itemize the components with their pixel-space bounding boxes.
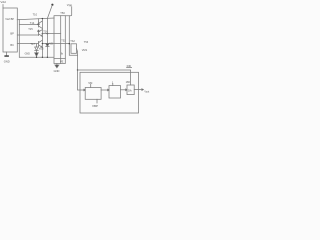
diode VD5 stack bbox=[36, 44, 38, 47]
block U1 bias reference block bbox=[3, 8, 17, 52]
wire output arrow bbox=[134, 89, 143, 91]
wire box2 to box3 bbox=[121, 89, 128, 91]
block outer enclosure bbox=[80, 72, 139, 113]
node junction W1-D2 bbox=[47, 33, 49, 35]
wire output rail bbox=[69, 16, 77, 56]
diode VD6 bbox=[46, 18, 48, 43]
node junction D bbox=[42, 43, 43, 44]
wire Vdd lead bbox=[2, 5, 4, 9]
svg-text:T14: T14 bbox=[30, 21, 35, 25]
wire B to Q1 bbox=[19, 23, 38, 25]
ground under U2 bbox=[56, 64, 58, 66]
wire collector rail bbox=[41, 19, 43, 58]
svg-text:T53: T53 bbox=[84, 41, 89, 44]
node VBP label lead bbox=[96, 99, 98, 103]
svg-text:VM1: VM1 bbox=[82, 48, 88, 52]
svg-text:VD: VD bbox=[49, 42, 53, 46]
block U3 sense box bbox=[71, 44, 77, 54]
svg-text:VE: VE bbox=[60, 59, 64, 63]
wire W1 bbox=[42, 33, 60, 35]
svg-text:Tb2: Tb2 bbox=[70, 39, 75, 43]
node junction DD branch bbox=[77, 69, 78, 70]
block VM measure box bbox=[85, 88, 101, 100]
node B input stem with dot bbox=[47, 6, 51, 18]
svg-text:Vpp: Vpp bbox=[67, 3, 73, 7]
svg-text:VBP: VBP bbox=[92, 104, 98, 108]
wire VM box to box2 bbox=[101, 89, 109, 91]
wire Vpp lead bbox=[65, 7, 71, 16]
svg-text:180: 180 bbox=[126, 80, 131, 84]
svg-text:T17: T17 bbox=[30, 42, 35, 46]
svg-text:BP: BP bbox=[10, 31, 14, 35]
wire D left segment bbox=[17, 43, 38, 45]
svg-text:VD5: VD5 bbox=[39, 48, 44, 51]
svg-text:T15: T15 bbox=[28, 27, 33, 31]
ground under U1 bbox=[6, 52, 8, 55]
wire top bus A bbox=[17, 18, 54, 20]
wire C to Q2 bbox=[17, 34, 38, 36]
wire D right segment bbox=[42, 43, 69, 45]
svg-text:Vout: Vout bbox=[144, 91, 149, 94]
block box2 controller bbox=[109, 86, 121, 98]
block U2 current source pair bbox=[54, 16, 65, 64]
svg-text:Ib: Ib bbox=[61, 51, 64, 55]
block box3 DAC bbox=[127, 85, 134, 95]
svg-text:DA: DA bbox=[128, 89, 132, 93]
node junction W1 bbox=[42, 33, 43, 34]
wire U3 to lower circuit bbox=[77, 49, 86, 91]
svg-text:BC: BC bbox=[10, 43, 14, 47]
svg-text:V​ref BP: V​ref BP bbox=[5, 17, 14, 21]
svg-text:T50: T50 bbox=[60, 11, 65, 15]
wire left rail bbox=[18, 20, 20, 58]
svg-text:T10: T10 bbox=[33, 12, 38, 16]
svg-text:T52: T52 bbox=[61, 40, 66, 43]
transistor Q2 (diode connected) bbox=[37, 30, 39, 32]
wire DD net bbox=[78, 70, 131, 85]
svg-text:GND: GND bbox=[25, 53, 31, 56]
transistor Q1 (diode connected) bbox=[38, 19, 40, 22]
transistor Q3 bbox=[39, 40, 43, 47]
node junction D-rail bbox=[69, 43, 71, 45]
svg-text:GND: GND bbox=[54, 69, 60, 73]
svg-text:Vdd: Vdd bbox=[0, 0, 6, 4]
svg-text:GND: GND bbox=[4, 59, 10, 63]
wire ground rail bbox=[19, 56, 53, 58]
